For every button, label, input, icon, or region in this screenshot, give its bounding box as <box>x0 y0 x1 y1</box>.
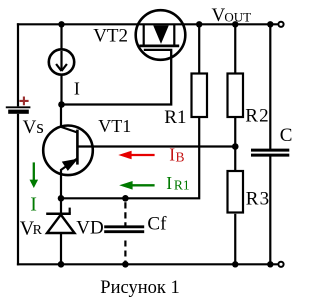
capacitor Cf dashed top lead <box>124 202 126 225</box>
svg-text:R1: R1 <box>174 178 190 193</box>
svg-text:Рисунок 1: Рисунок 1 <box>100 278 179 298</box>
svg-text:I: I <box>74 78 80 98</box>
capacitor C <box>251 150 289 155</box>
wire R2 bottom R3 top lead <box>234 118 236 170</box>
svg-text:R2: R2 <box>245 105 270 126</box>
transistor VT1 PNP <box>43 105 93 199</box>
wire left rail upper <box>17 23 19 106</box>
svg-text:V: V <box>212 5 226 26</box>
node Cf top <box>122 195 129 202</box>
current arrow IB red <box>131 154 155 156</box>
svg-text:B: B <box>176 150 185 165</box>
wire current source top lead <box>60 24 62 49</box>
svg-text:C: C <box>280 125 293 146</box>
node top junction <box>58 21 64 27</box>
capacitor Cf dashed bottom lead <box>124 241 126 264</box>
svg-text:OUT: OUT <box>224 10 251 25</box>
svg-text:I: I <box>166 173 172 193</box>
wire R3 bottom lead <box>234 214 236 264</box>
resistor R3 <box>228 171 244 213</box>
svg-text:VD: VD <box>76 217 103 238</box>
wire top rail <box>17 23 278 25</box>
node VD bottom <box>58 261 65 268</box>
svg-text:VT1: VT1 <box>98 116 131 136</box>
zener diode VD <box>46 198 74 264</box>
wire current source bottom lead <box>60 75 62 104</box>
wire R1 top lead <box>198 24 200 72</box>
svg-text:I: I <box>30 193 37 215</box>
battery Vs positive plate <box>6 106 31 108</box>
wire bottom rail <box>17 263 278 265</box>
wire output rail right lower <box>269 155 271 264</box>
node base R2 R3 junction <box>232 143 239 150</box>
node output top <box>267 21 273 27</box>
node R2 top <box>232 21 238 27</box>
svg-text:Cf: Cf <box>147 213 167 234</box>
node gate junction <box>58 101 65 108</box>
resistor R1 <box>192 74 208 118</box>
svg-text:R3: R3 <box>246 188 271 209</box>
node R3 bottom <box>232 261 238 267</box>
svg-text:R: R <box>33 223 43 238</box>
current arrow I input green <box>33 162 35 180</box>
node emitter junction <box>58 195 65 202</box>
current arrow IR1 green <box>132 184 155 186</box>
wire left rail lower <box>17 114 19 266</box>
node Cf bottom <box>122 261 129 268</box>
capacitor Cf <box>104 227 144 232</box>
wire R2 top lead <box>234 24 236 72</box>
terminal Vout top right <box>278 22 283 27</box>
battery Vs negative plate <box>8 110 29 114</box>
terminal bottom right <box>278 262 283 267</box>
transistor VT2 p-MOSFET <box>136 10 186 60</box>
node R1 top <box>196 21 202 27</box>
current source I1 <box>49 49 74 74</box>
node output bottom <box>267 261 273 267</box>
wire gate net with VT2 gate bar <box>62 50 172 105</box>
wire output rail right upper <box>269 24 271 150</box>
battery plus sign <box>19 97 28 106</box>
svg-text:R1: R1 <box>164 107 186 128</box>
wire base net <box>78 145 235 147</box>
resistor R2 <box>228 74 244 118</box>
wire emitter rail to R1 bottom <box>61 118 199 198</box>
svg-text:I: I <box>169 145 175 165</box>
svg-text:Vs: Vs <box>23 117 44 138</box>
svg-text:VT2: VT2 <box>93 26 128 47</box>
